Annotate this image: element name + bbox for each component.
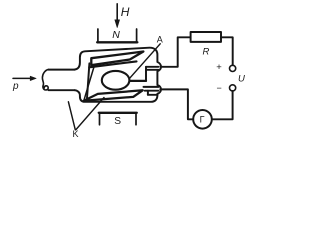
svg-text:−: − [217,83,222,93]
+ terminal circle [230,65,236,71]
top tab left step [145,67,147,81]
wire from top tab A up to resistor [161,37,191,67]
wire p-arrow shaft [13,77,31,79]
bottom tab step vertical [147,91,149,95]
channel bulge right wall between output tabs [157,67,161,89]
ellipse channel cross-section [102,71,130,90]
pointer line K to left electrode [68,102,75,130]
top tab upper edge [146,66,158,68]
channel box front-top edge [89,61,136,67]
electrode K top plate [91,52,143,66]
bottom tab lower edge [145,90,159,92]
inlet tube top wall [48,69,74,71]
svg-text:p: p [12,81,19,92]
svg-text:Г: Г [200,115,205,125]
channel bulge right wall lower and bottom edge and lower-left S-curve [75,90,162,102]
inlet tube broken-end curl [42,70,48,90]
top tab lower edge [146,69,158,71]
wire from resistor to + terminal [221,37,233,65]
- terminal circle [230,85,236,91]
galvanometer circle [193,110,212,129]
bottom tab lowest edge [148,94,158,96]
magnet pole S bracket bar [99,112,137,114]
resistor R body [191,32,221,42]
wire from galvanometer to bottom tab [160,89,193,119]
channel bulge outline upper-left S-curve and top edge [75,48,162,70]
magnet pole S bracket ticks [100,113,137,125]
svg-text:A: A [157,34,163,44]
pointer line to A (ellipse) [130,44,161,79]
arrowhead of p flow arrow [30,76,36,80]
magnet pole N bracket bar [97,41,137,43]
svg-text:+: + [216,62,222,73]
electrode K bottom plate [84,90,143,100]
bottom tab upper edge [144,86,159,88]
pointer line K to right electrode tab [76,98,104,130]
magnet pole N bracket ticks [98,29,137,42]
magnetic field H arrow [116,4,118,21]
inlet tube bottom wall [49,89,75,91]
channel box inner-left edge [84,65,95,101]
svg-text:K: K [73,129,79,139]
svg-text:H: H [121,5,130,19]
wire from - terminal down to galvanometer [212,91,233,119]
H arrowhead [115,20,120,28]
svg-text:S: S [114,116,121,127]
inner outlet stem bar [129,80,146,82]
svg-text:N: N [112,29,120,41]
svg-text:R: R [203,47,210,58]
svg-text:U: U [238,74,245,85]
channel box front-left edge [87,63,89,98]
